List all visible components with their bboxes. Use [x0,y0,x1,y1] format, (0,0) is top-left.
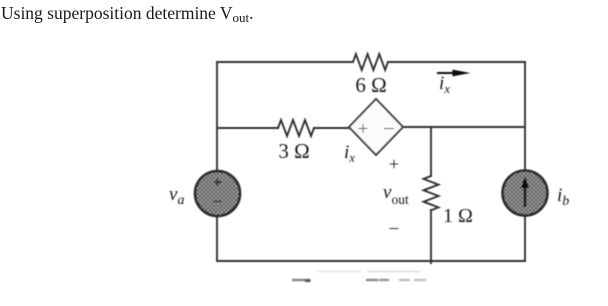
voltage source Va circle [195,171,240,216]
svg-text:vout: vout [383,182,409,207]
svg-text:+: + [213,173,223,192]
current source Ib circle [503,171,548,216]
wire diamond to right vertical [403,126,525,128]
dependent source U1 diamond [349,99,403,155]
wire top-right horizontal [388,61,525,63]
svg-text:Using superposition determine: Using superposition determine Vout. [1,3,254,25]
svg-text:+: + [358,119,369,140]
current arrow i_x top [437,70,471,77]
svg-text:va: va [169,184,184,208]
wire top-left horizontal [217,61,353,63]
wire 1ohm branch lower [430,210,432,263]
resistor R2 3ohm zigzag [278,120,314,136]
wire bottom horizontal [217,260,525,262]
resistor R1 6ohm zigzag [353,54,388,70]
svg-text:+: + [389,154,399,174]
wire middle to diamond [314,127,349,129]
resistor R3 1ohm zigzag vertical [424,176,439,210]
svg-text:ib: ib [557,185,569,209]
wire left vertical upper [216,62,218,171]
svg-text:–: – [212,191,222,210]
wire 1ohm branch upper [430,127,432,176]
faded caption fragments [293,272,425,281]
svg-text:3 Ω: 3 Ω [278,139,309,163]
svg-text:ix: ix [344,142,355,165]
svg-text:ix: ix [439,73,450,96]
svg-text:6 Ω: 6 Ω [355,73,386,97]
svg-text:1 Ω: 1 Ω [443,205,473,227]
svg-text:–: – [383,117,394,138]
wire right vertical lower [524,216,526,261]
svg-text:–: – [389,217,400,237]
wire left vertical lower [216,216,218,261]
wire right vertical upper [524,62,526,170]
wire middle horizontal left [217,127,278,129]
